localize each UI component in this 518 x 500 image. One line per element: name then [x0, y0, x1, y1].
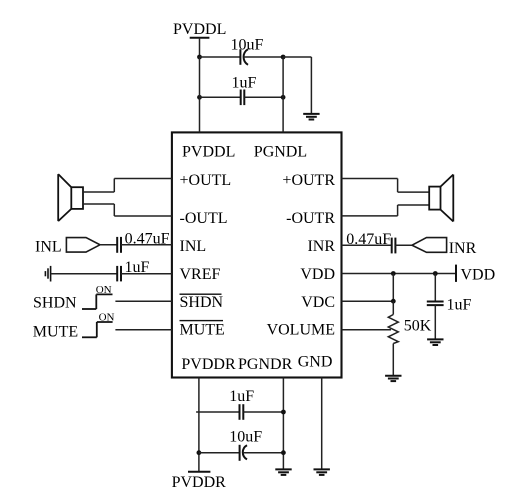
wire C4 to VREF pin [121, 273, 172, 275]
svg-text:SHDN: SHDN [33, 295, 77, 312]
pin label PGNDL (pin, top-right inside IC) [254, 144, 307, 161]
wire +OUTR pin [342, 179, 430, 193]
wire INL tag to C3 [100, 244, 117, 246]
node bottom 10uF right junction [281, 450, 286, 455]
pin label +OUTR [282, 172, 335, 189]
wire C3 to INL pin [121, 244, 172, 246]
wire to top ground [283, 57, 311, 114]
svg-text:+OUTL: +OUTL [180, 172, 232, 189]
capacitor C2 1uF (top) [241, 90, 245, 106]
wire PVDDR pin rail (bottom left) [198, 378, 200, 472]
ground (GND bottom) [314, 469, 330, 475]
label MUTE (left) [33, 323, 78, 340]
svg-text:GND: GND [298, 354, 333, 371]
svg-text:PGNDR: PGNDR [238, 356, 293, 373]
wire +OUTL pin [83, 179, 172, 193]
svg-text:VDD: VDD [300, 266, 335, 283]
node top-left 1uF junction [197, 95, 202, 100]
svg-text:INL: INL [180, 238, 207, 255]
svg-text:PGNDL: PGNDL [254, 144, 307, 161]
wire VOLUME pin to R1 tap [342, 329, 392, 331]
wire VDD junction to C6 [434, 274, 436, 302]
wire C6 to ground [434, 305, 436, 339]
wire 10uF row left [200, 56, 241, 58]
wire -OUTR pin [342, 205, 430, 216]
pin label INL [180, 238, 207, 255]
wire SW2 to MUTE pin [115, 329, 171, 331]
node VDC/50K junction [391, 299, 396, 304]
label 0.47uF (right) [346, 231, 391, 248]
label 10uF (bottom) [229, 429, 262, 446]
pin label +OUTL [180, 172, 232, 189]
pin label PVDDL (pin, top-left inside IC) [182, 144, 235, 161]
wire 1uF row left [200, 96, 241, 98]
ground (top right) [303, 114, 319, 120]
pin label SHDN (with overline) [180, 294, 224, 311]
terminal PVDDR (bottom supply) [188, 471, 210, 473]
wire -OUTL pin [83, 204, 172, 216]
ground (VREF, rotated left) [45, 266, 50, 282]
label ON (MUTE switch) [99, 312, 115, 324]
svg-text:-OUTL: -OUTL [180, 210, 228, 227]
connector INR input tag [412, 238, 447, 253]
svg-text:10uF: 10uF [231, 37, 264, 54]
wire top-right rail to PGNDL pin [282, 57, 284, 132]
wire VREF ground to C4 [51, 273, 118, 275]
label 50K [404, 317, 432, 334]
node VDD/1uF junction [433, 271, 438, 276]
ground (PGNDR bottom) [275, 469, 291, 475]
node VDD/50K junction [391, 271, 396, 276]
capacitor C8 10uF (bottom, polarized) [240, 445, 247, 461]
label 1uF (left) [125, 259, 150, 276]
capacitor C1 10uF (top, polarized) [240, 49, 248, 65]
label 10uF (top) [231, 37, 264, 54]
pin label PGNDR [238, 356, 293, 373]
svg-text:MUTE: MUTE [33, 323, 78, 340]
node top-right 1uF junction [281, 95, 286, 100]
switch SW2 (MUTE) [82, 322, 113, 337]
svg-text:PVDDR: PVDDR [181, 356, 236, 373]
pin label PVDDR [181, 356, 236, 373]
speaker SPR (right) [429, 175, 453, 222]
pin label VDC [301, 294, 335, 311]
label 1uF (bottom) [229, 388, 254, 405]
svg-text:1uF: 1uF [229, 388, 254, 405]
svg-text:10uF: 10uF [229, 429, 262, 446]
svg-text:INL: INL [35, 238, 62, 255]
node bottom 10uF left junction [197, 450, 202, 455]
terminal PVDDL (top supply terminal) [190, 37, 210, 39]
label INR [449, 240, 477, 257]
wire VDC pin [342, 300, 394, 302]
svg-text:1uF: 1uF [447, 296, 472, 313]
capacitor C6 1uF (VDD bypass) [427, 302, 444, 306]
svg-text:INR: INR [449, 240, 477, 257]
label SHDN (left) [33, 295, 77, 312]
pin label -OUTR [286, 210, 335, 227]
capacitor C4 1uF (VREF) [117, 266, 121, 282]
wire VDD pin row [342, 273, 457, 275]
node bottom 1uF right junction [281, 410, 286, 415]
wire VDD junction down to VDC row [392, 274, 394, 302]
svg-text:VDD: VDD [461, 266, 496, 283]
connector INL input tag [66, 238, 100, 253]
capacitor C7 1uF (bottom) [240, 404, 244, 420]
wire top-left rail to PVDDL pin [199, 57, 201, 132]
svg-text:VREF: VREF [180, 266, 221, 283]
svg-text:MUTE: MUTE [180, 322, 225, 339]
capacitor C3 0.47uF (INL) [117, 237, 121, 253]
label PVDDR (bottom) [172, 474, 227, 491]
ground (below C6) [427, 339, 443, 345]
wire bottom 1uF row right [243, 411, 283, 413]
wire bottom 1uF row left [196, 411, 239, 413]
pin label MUTE (with overline) [180, 320, 225, 339]
svg-text:VOLUME: VOLUME [267, 322, 335, 339]
svg-text:PVDDR: PVDDR [172, 474, 227, 491]
wire PGNDR pin rail (bottom middle) [282, 378, 284, 470]
svg-text:0.47uF: 0.47uF [346, 231, 391, 248]
pin label -OUTL [180, 210, 228, 227]
wire C5 to INR tag [395, 244, 412, 246]
label VDD (right) [461, 266, 496, 283]
pin label VREF [180, 266, 221, 283]
wire 1uF row right [244, 96, 283, 98]
svg-text:50K: 50K [404, 317, 432, 334]
ground (below R1) [385, 376, 401, 381]
svg-text:PVDDL: PVDDL [182, 144, 235, 161]
wire 10uF row right [244, 56, 284, 58]
label 0.47uF (left) [125, 230, 170, 247]
terminal VDD [455, 265, 457, 282]
switch SW1 (SHDN) [82, 294, 113, 309]
wire GND pin rail (bottom right) [321, 378, 323, 470]
svg-text:PVDDL: PVDDL [173, 21, 226, 38]
wire SW1 to SHDN pin [115, 300, 171, 302]
label 1uF (top) [232, 74, 257, 91]
label ON (SHDN switch) [96, 284, 112, 296]
label 1uF (right) [447, 296, 472, 313]
wire INR pin to C5 [342, 244, 392, 246]
label INL [35, 238, 62, 255]
pin label GND [298, 354, 333, 371]
wire bottom 10uF row left [199, 452, 240, 454]
label PVDDL (top) [173, 21, 226, 38]
svg-text:SHDN: SHDN [180, 294, 224, 311]
resistor R1 50K [388, 301, 398, 375]
pin label INR [307, 238, 335, 255]
capacitor C5 0.47uF (INR) [392, 238, 396, 254]
pin label VDD [300, 266, 335, 283]
wire PVDDL terminal to top rail [199, 38, 201, 57]
node top-right 10uF junction [281, 55, 286, 60]
svg-text:+OUTR: +OUTR [282, 172, 335, 189]
svg-text:-OUTR: -OUTR [286, 210, 335, 227]
pin label VOLUME [267, 322, 335, 339]
op-amp U1 IC body [172, 132, 342, 377]
node top-left 10uF junction [197, 55, 202, 60]
wire bottom 10uF row right [243, 452, 284, 454]
svg-text:VDC: VDC [301, 294, 335, 311]
svg-text:INR: INR [307, 238, 335, 255]
svg-text:1uF: 1uF [232, 74, 257, 91]
speaker SPL (left) [58, 174, 83, 221]
